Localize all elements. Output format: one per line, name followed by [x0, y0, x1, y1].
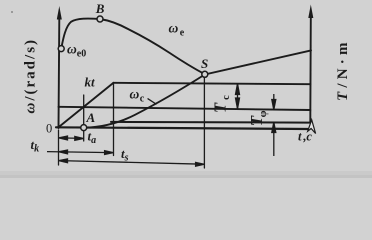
- vertical line at t_a through A (x=83.7): [83, 95, 85, 141]
- speck top-left: [11, 11, 13, 13]
- point B: [97, 16, 103, 22]
- leader for omega_c label: [148, 99, 156, 104]
- x axis (t axis): [56, 127, 309, 129]
- vertical line at t_k (x=113.5): [113, 83, 115, 156]
- kt line: [59, 83, 114, 128]
- hline2 : level through kt at t_a: [59, 107, 311, 110]
- bottom shadow band: [0, 171, 372, 178]
- point A: [81, 125, 87, 131]
- t_s dimension (y=161.5, from 58.5 to 203.6): [59, 159, 205, 166]
- extension line below origin: [58, 130, 60, 165]
- svg-text:kt: kt: [85, 75, 96, 90]
- arrowhead right axis top: [308, 5, 313, 19]
- svg-text:T/N·m: T/N·m: [335, 38, 351, 101]
- T_phi dimension arrows (outside style, between hline2 and hline3): [272, 94, 276, 156]
- svg-text:t,c: t,c: [298, 130, 312, 144]
- point omega_e0: [58, 46, 64, 52]
- svg-text:B: B: [95, 1, 105, 16]
- point S: [202, 71, 208, 77]
- arrowhead left axis top: [57, 6, 62, 20]
- t_a dimension (y=138, from 58.5 to 83.7): [59, 136, 84, 140]
- hline1 : level of kt corner: [114, 83, 311, 84]
- hline3 : level above x axis on the right: [111, 121, 310, 124]
- T_c dimension arrow (between hline1 and hline2): [236, 84, 240, 109]
- svg-text:A: A: [86, 110, 96, 125]
- omega_c curve: [84, 50, 311, 127]
- svg-text:S: S: [201, 56, 208, 71]
- svg-text:ω/(rad/s): ω/(rad/s): [23, 38, 39, 114]
- open arrowhead at end of t axis: [308, 120, 316, 134]
- t_k dimension (y=151.5, from 58.5 to 113.5): [47, 150, 113, 155]
- left axis (omega axis): [58, 18, 61, 128]
- omega_e curve: [61, 19, 205, 75]
- right axis (T axis): [309, 17, 312, 122]
- vertical line below S (x=203.6): [203, 77, 205, 168]
- svg-text:0: 0: [46, 122, 52, 136]
